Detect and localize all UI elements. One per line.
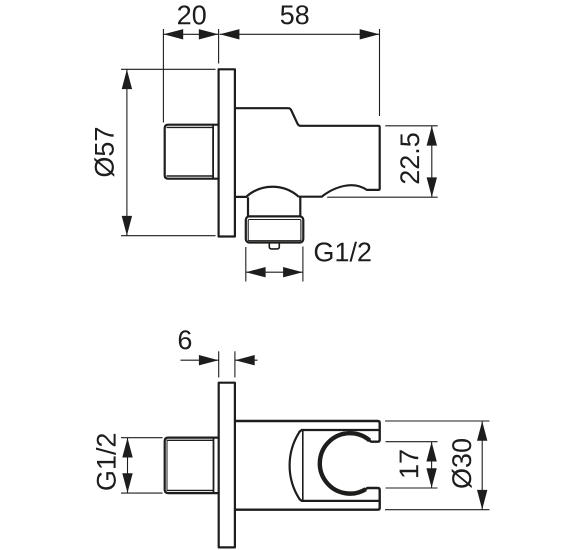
holder dome bulge (bottom view) [290,430,304,501]
dimension Ø57: line [126,69,128,235]
dimension Ø57: top extension line [121,68,216,70]
label G1/2 side [315,242,371,262]
label 58 [281,5,309,24]
dimension 17: top arrowhead [426,442,436,462]
dimension Ø30: bottom arrowhead [477,490,487,510]
dimension 17: bottom arrowhead [426,468,436,488]
outlet tip tab [269,243,279,249]
dimension 22.5: top extension line [385,125,437,127]
dimension G1/2 (bottom view): bottom extension line [121,492,163,494]
dimension 22.5: bottom extension line [327,196,438,198]
dimension G1/2 (bottom view): top arrowhead [122,438,132,458]
label 20 [178,5,206,24]
label diam 30 [452,439,472,488]
thread square (bottom view) root line bottom [167,489,214,491]
label 22.5 [400,133,419,183]
dimension G1/2 (bottom view): line [127,438,129,493]
thread square (side view) root line top [167,126,214,128]
dimension 58: left arrowhead [220,29,240,39]
dimension 6: right extension line [234,351,236,377]
body and holder silhouette (bottom view) [235,421,380,510]
dimension 6: right tail line [235,359,258,361]
outlet neck left line [247,197,249,216]
dimension Ø57: bottom arrowhead [122,216,132,236]
label 17 [400,450,419,477]
thread square (bottom view) left inner line [166,440,168,490]
outlet boss dome (side view) [235,187,299,197]
dimension 6: right arrowhead [235,355,255,365]
holder inner cup arc (bottom view) [320,433,370,493]
dimension 22.5: line [431,126,433,197]
outlet nut outer (side view) [246,216,303,242]
holder dome edge line (bottom view) [302,430,304,500]
dimension Ø57: top arrowhead [122,70,132,90]
dimension 6: left arrowhead [199,355,219,365]
dimension Ø30: line [481,421,483,510]
dimension 6: left tail line [181,359,219,361]
dimension 17: top extension line [386,441,438,443]
wall plate (bottom view) [219,383,235,548]
dimension 17: line [431,442,433,488]
label diam 57 [94,128,114,177]
dimension G1/2 (bottom view): bottom arrowhead [122,473,132,493]
outlet nut inner line [248,220,301,241]
thread square (bottom view) end line [213,438,215,493]
dimension Ø30: bottom extension line [385,509,490,511]
dimension G1/2 (side view): line [246,271,303,273]
dimension 20: left arrowhead [164,29,184,39]
label 6 [179,330,191,349]
dimension 22.5: top arrowhead [427,126,437,146]
dimension 20: right arrowhead [199,29,219,39]
thread square (side view) end line [212,125,214,178]
dimension 20/58: middle extension line [218,29,220,64]
holder face top edge (bottom view) [301,429,379,431]
dimension G1/2 (bottom view): top extension line [121,437,163,439]
dimension 20: line [163,33,218,35]
dimension G1/2 (side view): left extension line [245,247,247,282]
dimension 58: line [220,33,380,35]
dimension G1/2 (side view): right arrowhead [283,267,303,277]
wall plate (side view) [219,69,235,236]
dimension G1/2 (side view): left arrowhead [246,267,266,277]
thread square (bottom view) root line top [167,439,214,441]
dimension 22.5: bottom arrowhead [427,177,437,197]
thread square (bottom view) outer [165,438,219,494]
thread square (side view) root line bottom [167,175,214,177]
dimension 17: bottom extension line [386,487,438,489]
dimension Ø30: top arrowhead [477,421,487,441]
dimension G1/2 (side view): right extension line [302,247,304,282]
dimension Ø30: top extension line [385,420,490,422]
label G1/2 bottom [96,434,116,490]
holder face bottom edge (bottom view) [301,500,379,502]
thread square (side view) outer [165,125,218,179]
dimension 58: right extension line [379,29,381,116]
body and holder outline (side view) [235,108,380,197]
dimension 20: left extension line [162,29,164,123]
dimension 6: left extension line [218,351,220,377]
dimension 58: right arrowhead [360,29,380,39]
outlet neck right line [299,197,301,216]
dimension Ø57: bottom extension line [121,235,216,237]
